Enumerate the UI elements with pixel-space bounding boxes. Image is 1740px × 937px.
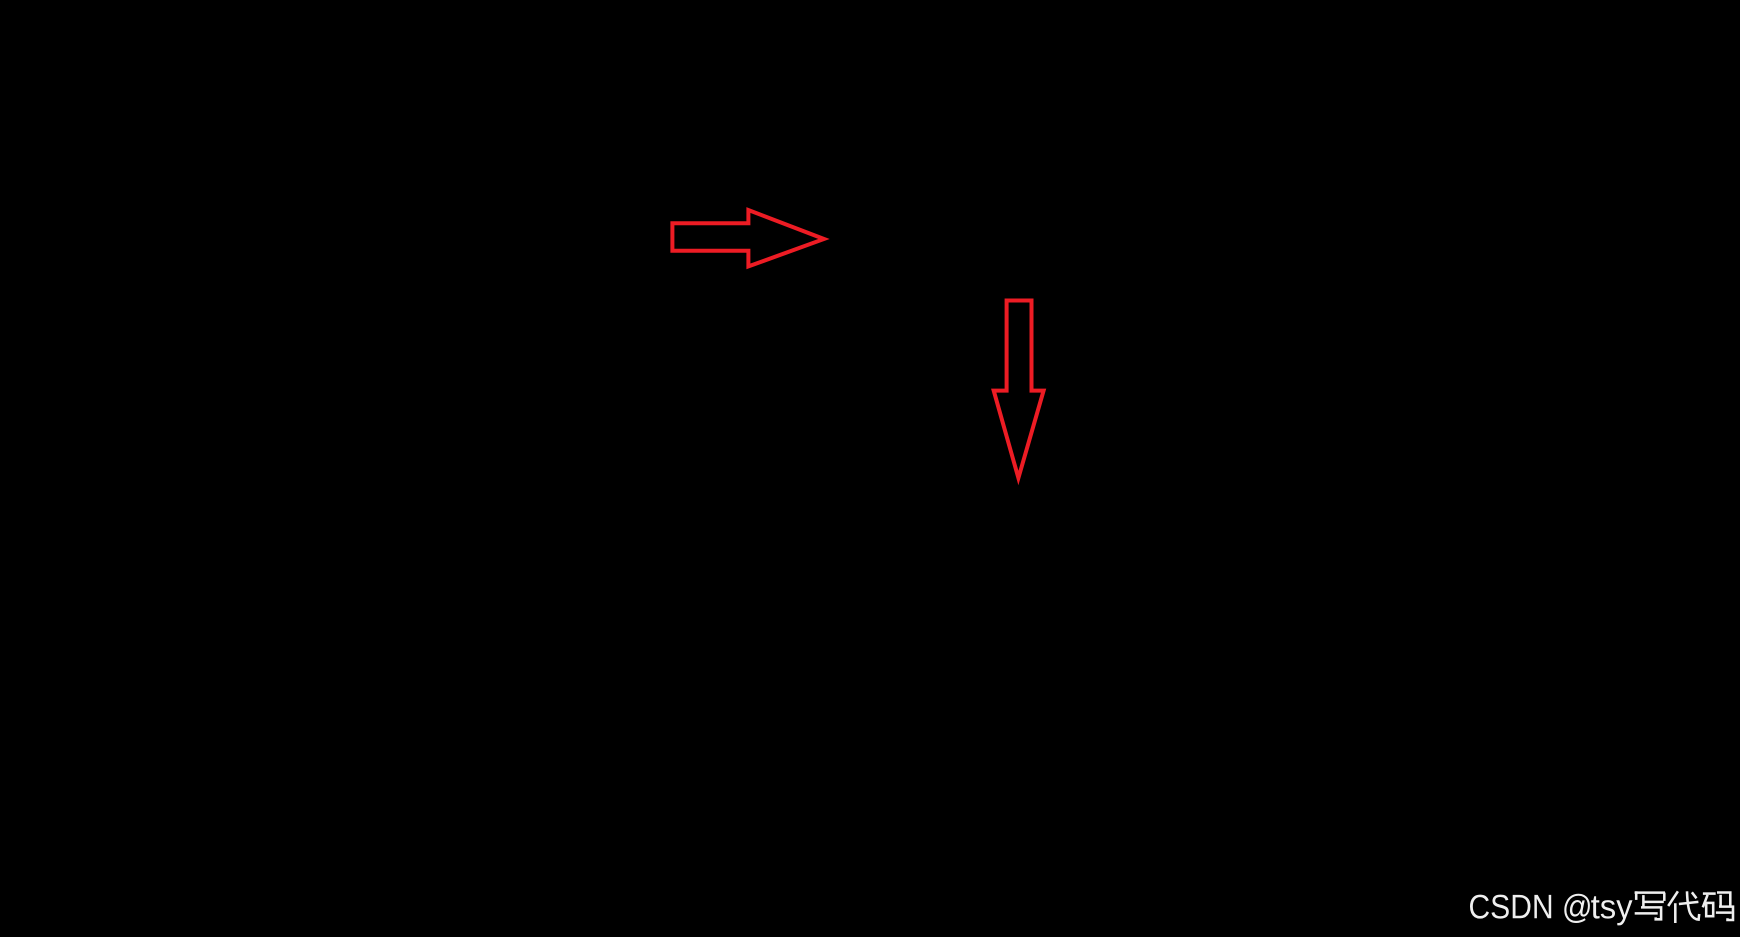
watermark latin text CSDN @tsy <box>1470 894 1633 926</box>
watermark hanzi 写 <box>1635 891 1665 919</box>
red right arrow <box>672 210 824 266</box>
watermark hanzi 码 <box>1703 893 1733 921</box>
watermark hanzi 代 <box>1668 891 1699 923</box>
red down arrow <box>994 301 1044 479</box>
